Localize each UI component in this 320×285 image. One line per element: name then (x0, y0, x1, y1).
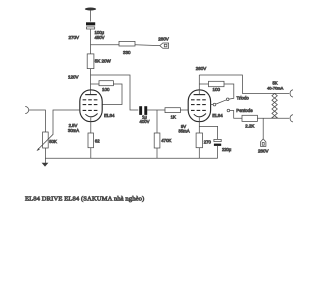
wire (90, 29, 92, 54)
svg-text:Pentode: Pentode (236, 108, 253, 113)
svg-text:280V: 280V (158, 36, 169, 41)
svg-text:280V: 280V (258, 148, 269, 153)
connector 280V plug (bottom) (261, 139, 266, 147)
tube V2 grid g3 (191, 99, 206, 101)
svg-text:Triodo: Triodo (237, 96, 250, 101)
wire plate to R100 (right) (199, 83, 208, 85)
wire 260V rail to transformer primary (199, 75, 289, 93)
svg-text:450V: 450V (95, 35, 105, 40)
capacitor 1u 400V coupling (139, 106, 142, 115)
tube V2 plate (194, 94, 206, 96)
svg-text:35mA: 35mA (178, 129, 189, 134)
capacitor C1 100u 450V polarized plate (86, 22, 95, 25)
svg-text:120V: 120V (68, 75, 79, 80)
capacitor 220u bypass bottom plate (214, 144, 221, 146)
wire R470K to ground rail (156, 148, 158, 158)
svg-text:270: 270 (204, 140, 212, 145)
wire plate to R100 (91, 83, 100, 85)
switch common circle (g2) (213, 103, 216, 106)
wire to V2 grid (180, 109, 188, 111)
svg-text:100: 100 (102, 87, 110, 92)
resistor 100 (right) (209, 81, 225, 86)
tube V2 EL84 envelope (188, 90, 210, 122)
tube V2 cathode (194, 114, 206, 117)
tube V2 grid g2 (191, 104, 206, 106)
wire R100 to triode contact (224, 84, 234, 99)
capacitor 220u bypass top plate (214, 139, 221, 141)
wire cathode V1 (90, 118, 92, 133)
wire cap to junction (147, 109, 165, 111)
transformer T1 winding strand B (272, 93, 277, 118)
output jack top (290, 90, 293, 97)
svg-text:30mA: 30mA (68, 128, 79, 133)
svg-text:1K: 1K (171, 115, 176, 120)
wire cathode to bypass cap (199, 126, 217, 139)
wire junction to R 470K (156, 110, 158, 133)
resistor 2.2K (242, 115, 257, 121)
resistor 270 (196, 133, 202, 148)
ground arrow (42, 163, 49, 167)
input jack (25, 107, 29, 114)
wire R270 to ground rail (198, 148, 200, 159)
wire 120V rail to coupling cap (91, 75, 139, 110)
wire plate V2 to 260V rail (198, 75, 200, 95)
connector 280V plug inner mark (262, 143, 264, 146)
pentode contact circle (227, 109, 230, 112)
wire cathode V2 node (198, 118, 200, 133)
svg-text:EL84 DRIVE EL84 (SAKUMA nhà ng: EL84 DRIVE EL84 (SAKUMA nhà nghèo) (25, 196, 144, 203)
tube V1 grid g2 (83, 104, 98, 106)
resistor 470K grid leak (154, 133, 160, 148)
svg-text:EL84: EL84 (212, 113, 223, 118)
svg-text:EL84: EL84 (104, 113, 115, 118)
connector 280V tag (top right) (160, 43, 169, 48)
wire pentode contact to 2.2K (230, 111, 242, 119)
svg-text:62: 62 (95, 138, 100, 143)
switch lever (216, 100, 227, 104)
potentiometer wiper arrow (38, 134, 53, 149)
connector 280V tag inner mark (164, 44, 167, 47)
wire (90, 10, 92, 22)
svg-text:470K: 470K (161, 138, 171, 143)
resistor 5K 20W (87, 54, 94, 69)
ground (chassis) arrow at top (85, 8, 96, 11)
wire R100 to screen grid (102, 84, 122, 105)
wire wiper to grid (53, 110, 80, 135)
tube V2 grid g1 (191, 109, 206, 111)
tube V1 grid g1 (83, 109, 98, 111)
wire (135, 44, 160, 47)
tube V1 EL84 envelope (80, 90, 102, 122)
wire g2 to switch common (210, 104, 213, 106)
resistor 62 (88, 133, 94, 148)
tube V1 cathode (85, 114, 97, 117)
resistor 1K grid stopper (165, 108, 180, 113)
capacitor C1 lower plate (87, 27, 95, 29)
potentiometer wiper arrowhead (37, 148, 40, 151)
wire pot to ground rail (44, 148, 46, 163)
svg-text:260V: 260V (196, 66, 207, 71)
svg-text:2.2K: 2.2K (245, 123, 254, 128)
wire down to 280V plug (262, 118, 264, 139)
wire to R 330 (91, 44, 120, 46)
svg-text:330: 330 (123, 50, 131, 55)
svg-text:270V: 270V (68, 35, 79, 40)
wire (90, 148, 92, 159)
svg-text:220μ: 220μ (222, 147, 232, 152)
output jack bottom (290, 115, 293, 122)
resistor 100 (left) (99, 81, 113, 86)
wire input to pot (29, 110, 46, 132)
svg-text:100: 100 (213, 87, 221, 92)
svg-text:40-70mA: 40-70mA (267, 85, 284, 90)
svg-text:400V: 400V (139, 119, 149, 124)
tube V1 grid g3 (83, 99, 98, 101)
svg-text:50K: 50K (49, 139, 57, 144)
wire (90, 69, 92, 95)
potentiometer 50K body (43, 132, 49, 148)
tube V1 plate (85, 94, 97, 96)
transformer T1 winding strand A (272, 93, 277, 118)
wire 2.2K to transformer bottom and output (257, 117, 289, 119)
resistor 330 (119, 41, 135, 46)
ground rail (45, 157, 218, 159)
wire C220u to ground rail (217, 146, 219, 158)
switch triode contact circle (226, 98, 229, 101)
svg-text:5K 20W: 5K 20W (95, 59, 112, 64)
